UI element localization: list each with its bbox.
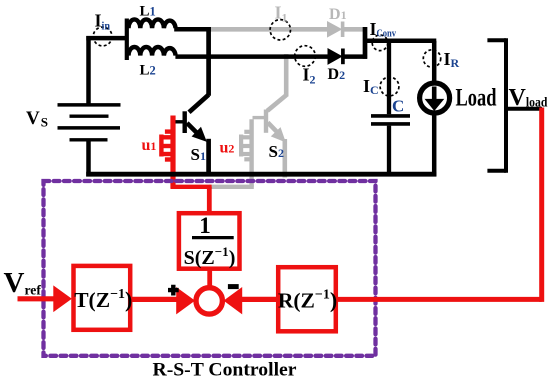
wire u1 gate horizontal to node (171, 185, 212, 189)
battery VS plates (58, 103, 121, 107)
wire battery bottom vertical (86, 140, 91, 176)
svg-text:1: 1 (199, 213, 211, 238)
gate drive symbol u1 (161, 132, 172, 160)
inductor L2 (129, 47, 176, 56)
arrow into summer plus (177, 288, 195, 313)
wire S2 gate lead (253, 116, 265, 119)
wire capacitor branch upper (387, 41, 391, 115)
wire (341, 27, 364, 32)
gate drive symbol u2 (241, 132, 251, 160)
wire 1/S block to summer (207, 269, 212, 287)
transistor S1 emitter diagonal (187, 123, 199, 135)
arrow Vref input (18, 296, 56, 301)
node IR dashed circle (423, 50, 440, 67)
wire IConv junction vertical (363, 27, 368, 59)
transistor S2 body bar (264, 110, 268, 133)
block 1/S(Z-1) (179, 213, 240, 269)
controller dashed boundary (44, 181, 376, 356)
svg-text:C: C (392, 97, 404, 116)
svg-text:D1: D1 (329, 6, 347, 23)
load arrow (432, 87, 437, 101)
transistor S1 gate lead (176, 120, 184, 123)
svg-text:L1: L1 (140, 4, 156, 20)
node IConv dashed circle (372, 35, 388, 51)
wire left vertical to battery (86, 36, 91, 104)
wire node to 1/S block (207, 187, 212, 213)
svg-text:L2: L2 (140, 63, 156, 79)
node Iin dashed circle (93, 27, 112, 46)
capacitor C plates (371, 114, 410, 118)
wire S2 emitter diagonal (268, 123, 279, 134)
block T(Z-1) (74, 266, 131, 330)
wire u1 gate bar down (170, 116, 175, 189)
wire top-left horizontal (Iin) (86, 36, 127, 41)
block R(Z-1) (278, 267, 336, 331)
brace Vload bottom hook (487, 169, 506, 173)
wire inductor left junction vertical (125, 19, 129, 61)
arrow into summer minus (224, 288, 241, 313)
node I1 dashed circle (270, 20, 290, 40)
diode D2 (328, 49, 342, 64)
wire load branch upper (432, 41, 437, 82)
summer circle (196, 288, 222, 314)
node IC dashed circle (380, 77, 399, 96)
svg-text:u2: u2 (220, 140, 235, 157)
svg-text:D2: D2 (328, 66, 346, 83)
wire S1 collector junction vertical (206, 27, 211, 96)
svg-text:Load: Load (456, 85, 497, 112)
wire D2 to junction (342, 54, 368, 59)
svg-text:R-S-T Controller: R-S-T Controller (153, 360, 298, 381)
wire S1 emitter down (206, 139, 211, 177)
current source Load circle (420, 83, 450, 113)
wire S2 emitter down (282, 139, 287, 178)
diode D1 (328, 22, 342, 37)
label plus (168, 285, 179, 296)
wire T block to summer (130, 297, 178, 302)
wire S2 gate horizontal to node (209, 185, 254, 189)
wire bottom rail (86, 172, 436, 177)
wire S2 collector diagonal (267, 95, 286, 111)
wire R block input from Vload (335, 297, 542, 302)
fraction bar (192, 236, 234, 239)
S1 emitter arrowhead (193, 128, 207, 141)
wire L2 to D2 (175, 54, 328, 59)
wire capacitor branch lower (387, 126, 391, 177)
wire S2 gate bar down (249, 119, 253, 187)
brace Vload middle stub (506, 107, 542, 111)
wire L1 to junction (174, 27, 211, 32)
label minus (228, 284, 239, 289)
wire converter output horizontal (363, 39, 436, 44)
inductor L1 (129, 19, 176, 28)
transistor S1 body bar (182, 111, 186, 133)
node I2 dashed circle (295, 46, 316, 67)
brace Vload vertical (504, 38, 508, 173)
transistor S2 collector wire (284, 54, 289, 97)
wire load branch lower (432, 114, 437, 177)
wire gray top (L1 output to D1) (209, 27, 328, 32)
svg-text:u1: u1 (142, 137, 157, 154)
transistor S1 collector diagonal (189, 95, 209, 113)
wire Vload vertical red (539, 108, 544, 302)
wire summer to R block (241, 297, 280, 302)
brace Vload top hook (487, 38, 506, 42)
S2 emitter arrowhead (272, 128, 285, 142)
